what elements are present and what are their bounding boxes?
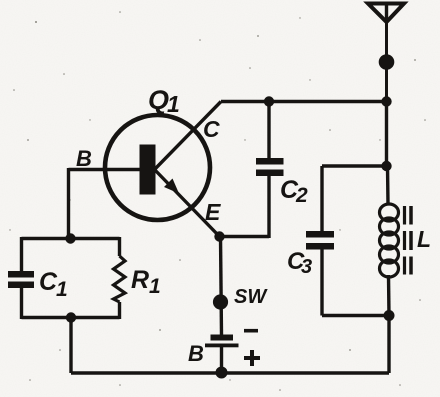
svg-text:Q: Q: [148, 85, 169, 115]
svg-text:E: E: [205, 199, 221, 225]
svg-text:C: C: [203, 116, 220, 142]
svg-text:B: B: [76, 146, 92, 171]
battery minus sign: [244, 329, 258, 333]
capacitor C3 bottom lead: [320, 250, 323, 316]
capacitor C2 top lead: [267, 102, 270, 159]
svg-text:SW: SW: [234, 286, 268, 308]
inductor core dashed line 1: [403, 206, 406, 275]
capacitor C3 top lead: [320, 166, 323, 232]
svg-text:R: R: [131, 266, 149, 294]
transistor Q1 base bar: [140, 145, 156, 195]
node base/C1/R1 junction: [65, 233, 75, 243]
inductor L top lead: [386, 166, 390, 204]
wire C3 branch horizontal: [322, 164, 387, 167]
wire emitter diagonal: [154, 169, 220, 237]
capacitor C2 bottom lead: [267, 176, 270, 238]
capacitor C2 plates: [256, 158, 284, 165]
battery B bottom plate: [205, 344, 239, 348]
svg-text:1: 1: [149, 275, 161, 298]
inductor L coil loops: [380, 204, 399, 277]
node battery/bottom rail junction: [216, 367, 228, 379]
wire emitter junction to C2: [220, 235, 270, 238]
wire C1/R1 bottom rail: [22, 316, 120, 319]
wire antenna lead: [385, 20, 388, 102]
wire emitter down to switch/battery: [221, 237, 222, 336]
wire bottom-left vertical drop: [69, 318, 72, 374]
inductor core dashed line 2: [409, 206, 413, 275]
resistor R1 top lead: [118, 237, 121, 256]
battery plus sign: [244, 356, 260, 360]
wire C3 bottom horizontal: [322, 314, 389, 317]
wire base vertical: [67, 168, 70, 239]
svg-text:1: 1: [56, 278, 68, 301]
inductor L bottom lead: [387, 275, 391, 316]
svg-text:B: B: [188, 341, 204, 366]
node L/C3 bottom junction: [384, 310, 395, 321]
wire C1/R1 top rail: [22, 237, 120, 240]
battery B top plate: [211, 335, 234, 341]
battery bottom lead: [220, 347, 223, 373]
node bottom-left junction: [66, 312, 76, 322]
wire junction down to bottom rail: [387, 316, 390, 374]
svg-text:3: 3: [301, 256, 312, 278]
transistor Q1 body: [105, 115, 210, 220]
capacitor C1 bottom lead: [20, 288, 23, 319]
svg-text:1: 1: [167, 91, 180, 117]
resistor R1 bottom lead: [118, 302, 121, 319]
wire right vertical (rail to C3 tap): [385, 102, 388, 169]
svg-text:2: 2: [295, 184, 308, 207]
capacitor C1 top lead: [20, 237, 23, 272]
wire collector diagonal: [154, 102, 221, 171]
node emitter junction: [214, 231, 224, 241]
capacitor C3 plates: [306, 231, 334, 238]
emitter arrowhead: [164, 179, 179, 194]
wire top rail: [221, 100, 387, 103]
node C2 tap on top rail: [264, 96, 274, 106]
node C3 tap junction: [381, 161, 391, 171]
switch SW dot: [213, 294, 228, 309]
resistor R1 zigzag: [114, 256, 126, 302]
capacitor C1 plates: [8, 271, 34, 278]
svg-text:L: L: [417, 226, 431, 252]
node antenna feed blob: [379, 54, 395, 70]
node top rail / antenna junction: [381, 96, 391, 106]
wire bottom rail: [71, 371, 389, 374]
wire base horizontal: [69, 168, 142, 171]
antenna: [368, 4, 404, 23]
